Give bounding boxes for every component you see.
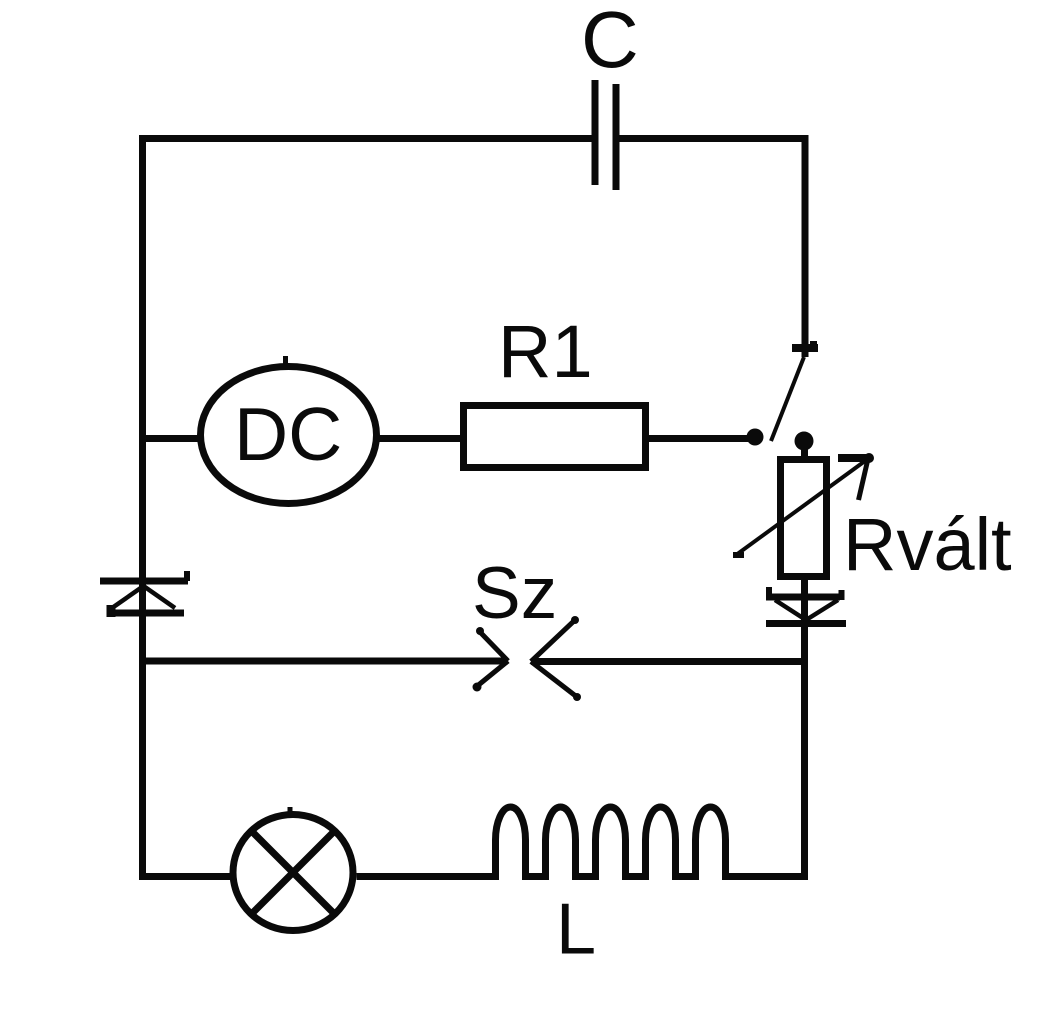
svg-text:Sz: Sz xyxy=(472,553,557,634)
svg-text:Rvált: Rvált xyxy=(843,503,1012,586)
svg-text:C: C xyxy=(581,0,639,84)
svg-text:DC: DC xyxy=(234,392,342,476)
svg-text:L: L xyxy=(556,890,596,970)
svg-text:R1: R1 xyxy=(498,310,593,393)
